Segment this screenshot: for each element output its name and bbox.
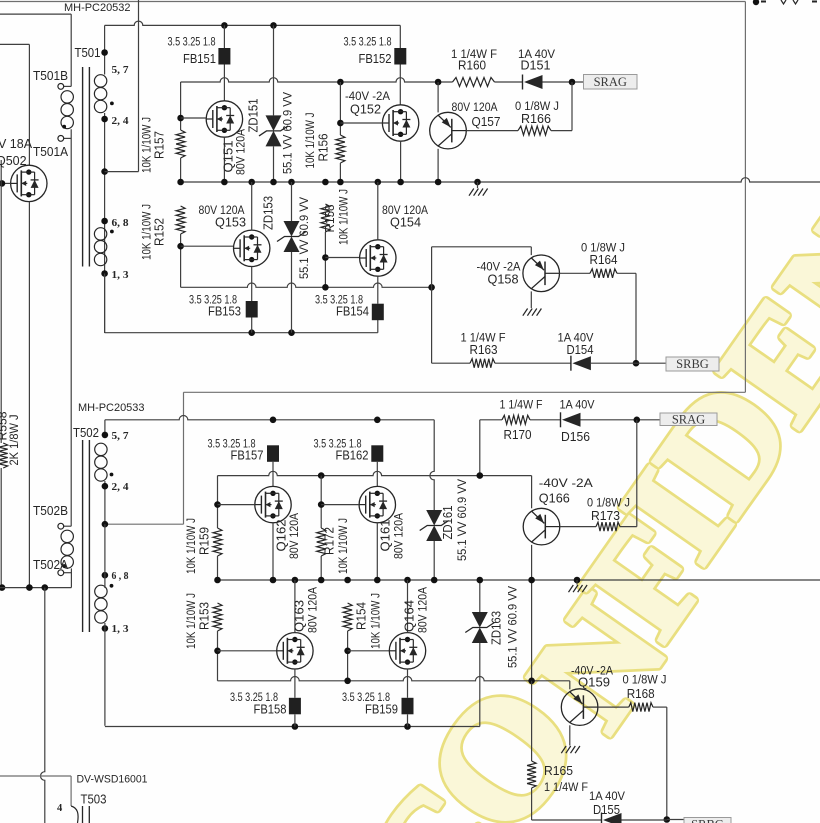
svg-text:D154: D154 xyxy=(567,343,594,357)
svg-text:10K 1/10W J: 10K 1/10W J xyxy=(186,518,198,574)
svg-text:0 1/8W J: 0 1/8W J xyxy=(623,675,667,687)
svg-text:6 , 8: 6 , 8 xyxy=(112,571,129,582)
svg-text:55.1 VV 60.9 VV: 55.1 VV 60.9 VV xyxy=(508,586,520,668)
svg-text:5, 7: 5, 7 xyxy=(112,431,129,442)
svg-text:R157: R157 xyxy=(153,131,167,159)
svg-text:D151: D151 xyxy=(521,58,551,72)
svg-text:R153: R153 xyxy=(198,602,212,630)
svg-text:2K 1/8W J: 2K 1/8W J xyxy=(7,415,21,466)
svg-text:10K 1/10W J: 10K 1/10W J xyxy=(305,113,317,169)
svg-text:R168: R168 xyxy=(627,687,655,701)
svg-text:3.5 3.25 1.8: 3.5 3.25 1.8 xyxy=(168,37,216,49)
svg-text:R170: R170 xyxy=(504,428,532,442)
svg-text:FB157: FB157 xyxy=(231,449,264,463)
svg-text:80V 120A: 80V 120A xyxy=(308,587,320,633)
svg-text:5, 7: 5, 7 xyxy=(112,65,129,76)
svg-text:SRBG: SRBG xyxy=(691,817,724,823)
svg-text:Q161: Q161 xyxy=(379,519,393,551)
svg-text:ZD153: ZD153 xyxy=(262,196,276,230)
svg-text:1A 40V: 1A 40V xyxy=(560,400,595,412)
svg-text:FB151: FB151 xyxy=(183,52,216,66)
svg-text:R156: R156 xyxy=(317,133,331,161)
svg-text:10K 1/10W J: 10K 1/10W J xyxy=(338,518,350,574)
svg-text:R164: R164 xyxy=(590,253,618,267)
svg-text:DV-WSD16001: DV-WSD16001 xyxy=(77,774,148,786)
svg-text:1 1/4W F: 1 1/4W F xyxy=(500,400,543,412)
svg-text:MH-PC20532: MH-PC20532 xyxy=(64,2,131,14)
svg-text:R173: R173 xyxy=(591,509,620,523)
svg-text:FB159: FB159 xyxy=(365,703,398,717)
svg-text:-40V -2A: -40V -2A xyxy=(477,260,521,274)
svg-text:T502A: T502A xyxy=(33,558,69,572)
svg-text:-40V -2A: -40V -2A xyxy=(345,89,390,103)
svg-text:3.5 3.25 1.8: 3.5 3.25 1.8 xyxy=(344,37,392,49)
svg-text:FB154: FB154 xyxy=(336,305,369,319)
svg-text:4: 4 xyxy=(57,803,63,814)
svg-text:Q153: Q153 xyxy=(215,215,246,229)
svg-text:Q159: Q159 xyxy=(578,675,610,689)
svg-text:-40V -2A: -40V -2A xyxy=(539,476,593,490)
svg-text:ZD163: ZD163 xyxy=(490,611,504,645)
svg-text:Q152: Q152 xyxy=(350,103,381,117)
svg-text:MH-PC20533: MH-PC20533 xyxy=(78,402,145,414)
svg-text:R158: R158 xyxy=(323,204,337,232)
svg-text:1, 3: 1, 3 xyxy=(112,624,129,635)
svg-text:1A 40V: 1A 40V xyxy=(589,791,625,803)
svg-text:SRBG: SRBG xyxy=(676,357,709,371)
svg-text:2, 4: 2, 4 xyxy=(112,482,130,493)
svg-text:1, 3: 1, 3 xyxy=(112,270,129,281)
svg-text:FB152: FB152 xyxy=(359,52,392,66)
svg-text:Q162: Q162 xyxy=(275,519,289,551)
svg-text:10K 1/10W J: 10K 1/10W J xyxy=(371,593,383,649)
svg-text:Q151: Q151 xyxy=(222,140,236,172)
svg-text:55.1 VV 60.9 VV: 55.1 VV 60.9 VV xyxy=(299,197,311,279)
svg-text:Q154: Q154 xyxy=(390,215,421,229)
svg-text:ZD151: ZD151 xyxy=(247,98,261,132)
svg-text:FB153: FB153 xyxy=(208,305,241,319)
svg-text:FB158: FB158 xyxy=(254,703,287,717)
svg-text:10K 1/10W J: 10K 1/10W J xyxy=(339,189,351,245)
svg-text:Q164: Q164 xyxy=(403,600,417,632)
svg-text:R159: R159 xyxy=(198,527,212,555)
svg-text:Q163: Q163 xyxy=(293,600,307,632)
svg-text:SRAG: SRAG xyxy=(672,412,705,426)
svg-text:R165: R165 xyxy=(544,764,573,778)
svg-text:0 1/8W J: 0 1/8W J xyxy=(587,498,630,510)
svg-text:Q166: Q166 xyxy=(539,492,570,506)
svg-text:55.1 VV 60.9 VV: 55.1 VV 60.9 VV xyxy=(457,479,469,561)
svg-text:2, 4: 2, 4 xyxy=(112,116,130,127)
svg-text:R152: R152 xyxy=(153,218,167,246)
svg-text:R172: R172 xyxy=(323,527,337,555)
svg-text:80V 120A: 80V 120A xyxy=(289,513,301,559)
svg-text:R163: R163 xyxy=(470,343,498,357)
svg-text:D156: D156 xyxy=(561,430,590,444)
svg-text:55.1 VV 60.9 VV: 55.1 VV 60.9 VV xyxy=(282,92,294,174)
svg-text:1 1/4W F: 1 1/4W F xyxy=(544,782,588,794)
svg-text:Q502: Q502 xyxy=(0,154,27,168)
svg-text:R154: R154 xyxy=(355,602,369,630)
svg-text:80V 120A: 80V 120A xyxy=(394,513,406,559)
svg-text:R166: R166 xyxy=(521,112,551,126)
svg-text:FB162: FB162 xyxy=(336,449,369,463)
svg-text:T502B: T502B xyxy=(33,504,68,518)
svg-text:Q157: Q157 xyxy=(472,115,501,129)
svg-text:R160: R160 xyxy=(458,58,486,72)
svg-text:T501B: T501B xyxy=(33,69,68,83)
svg-text:ZD161: ZD161 xyxy=(441,505,455,539)
svg-text:SRAG: SRAG xyxy=(594,75,627,89)
svg-text:80V 120A: 80V 120A xyxy=(236,129,248,175)
svg-text:T501A: T501A xyxy=(33,145,69,159)
svg-text:T503: T503 xyxy=(81,793,107,807)
svg-text:Q158: Q158 xyxy=(488,273,519,287)
svg-text:T502: T502 xyxy=(73,426,99,440)
svg-text:80V 120A: 80V 120A xyxy=(418,587,430,633)
svg-text:T501: T501 xyxy=(75,46,101,60)
svg-text:6, 8: 6, 8 xyxy=(112,218,129,229)
svg-text:80V 120A: 80V 120A xyxy=(452,102,498,114)
svg-text:D155: D155 xyxy=(593,803,620,817)
svg-text:10K 1/10W J: 10K 1/10W J xyxy=(186,593,198,649)
svg-text:V 18A: V 18A xyxy=(0,137,33,151)
